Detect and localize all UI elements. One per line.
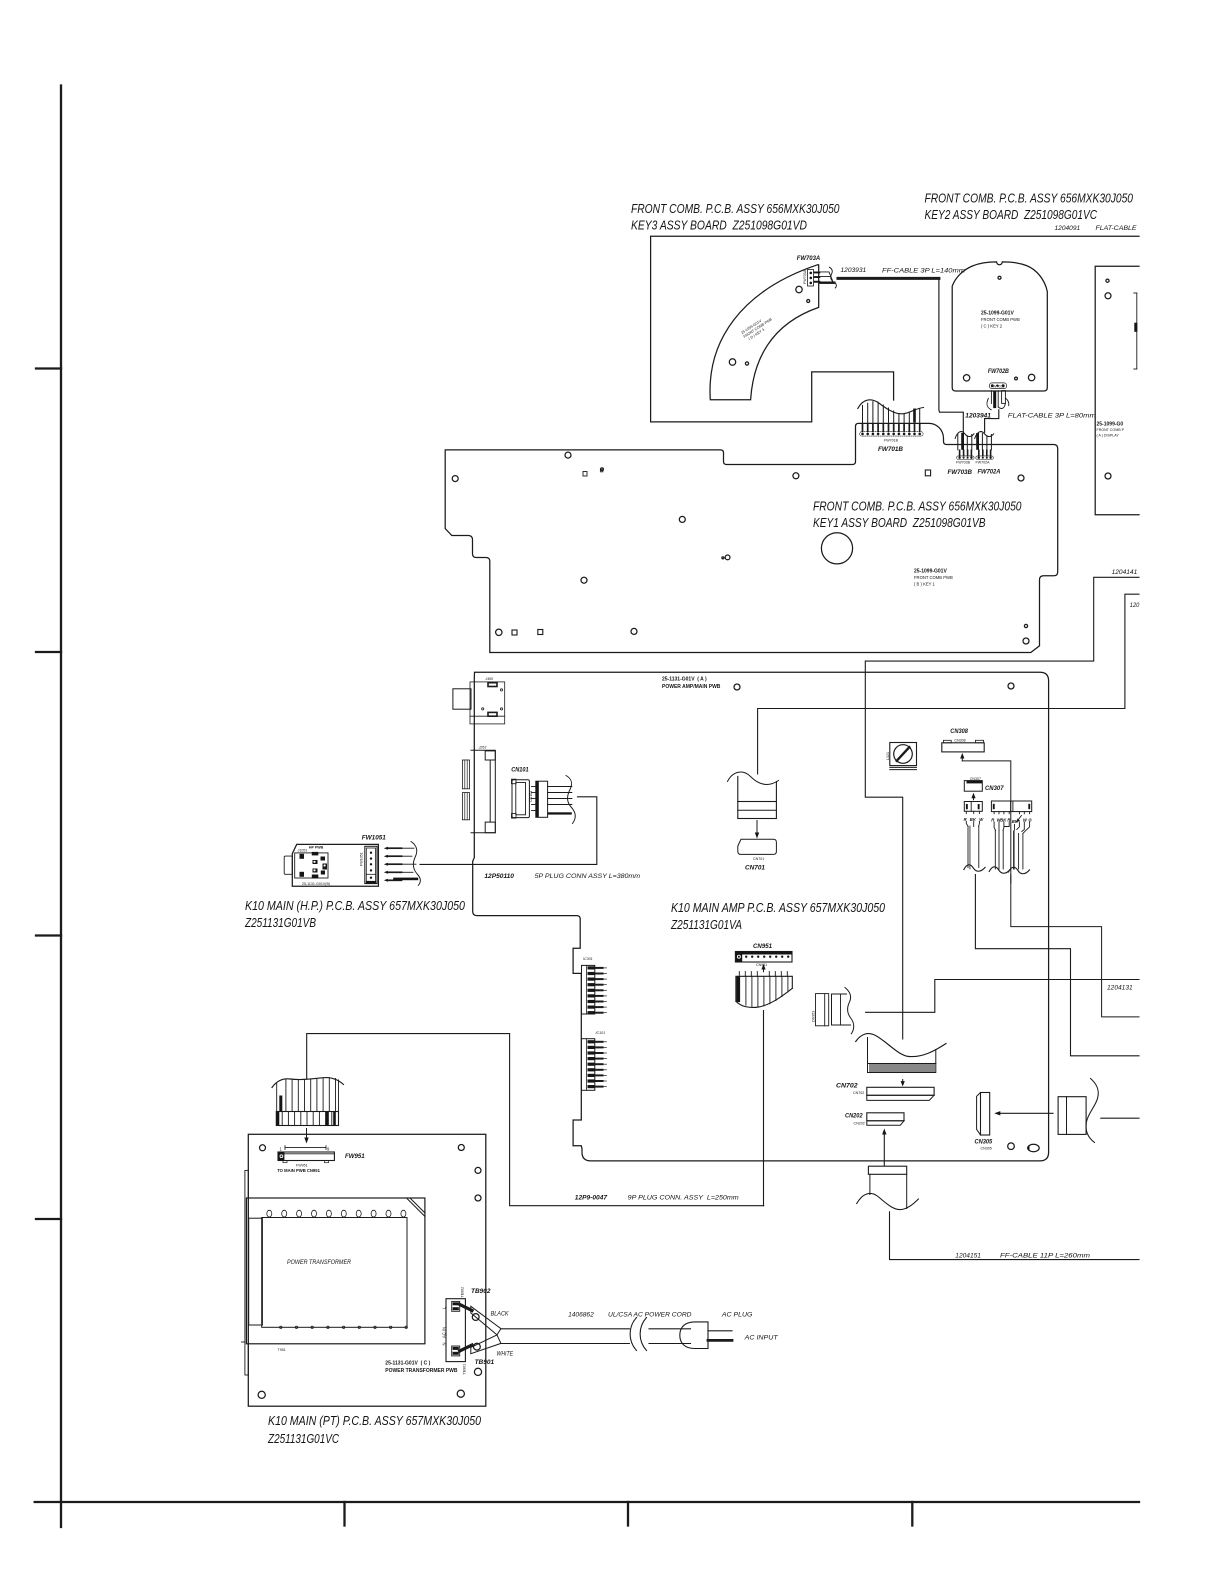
svg-text:( C ) KEY 2: ( C ) KEY 2 [981, 324, 1003, 329]
wire bundle group 1 [964, 822, 985, 872]
hole on KEY1 [793, 473, 799, 479]
connector IC101 edge comb [582, 1031, 607, 1090]
connector DN953 [812, 994, 829, 1026]
connector CN305 [975, 1093, 993, 1151]
connector CN308 [942, 739, 984, 752]
svg-text:FLAT-CABLE: FLAT-CABLE [1096, 225, 1138, 232]
svg-text:Z251131G01VA: Z251131G01VA [670, 917, 742, 932]
connector CN951 mating ribbon comb [736, 972, 792, 1008]
svg-text:Z251131G01VB: Z251131G01VB [244, 915, 316, 930]
svg-text:FRONT COMB. P.C.B. ASSY 656MXK: FRONT COMB. P.C.B. ASSY 656MXK30J050 [631, 201, 840, 216]
svg-text:FF-CABLE 11P L=260mm: FF-CABLE 11P L=260mm [1000, 1253, 1091, 1260]
connector speaker plug group 2 [991, 801, 1031, 814]
wire black lead from TB902 [460, 1305, 472, 1311]
svg-text:TB901: TB901 [475, 1359, 495, 1366]
wire flat-cable 3P 80mm route to FW702A [985, 410, 999, 433]
svg-text:CN305: CN305 [975, 1139, 993, 1146]
connector IC301 edge comb [582, 957, 607, 1014]
arrow BK marker [1016, 816, 1022, 823]
connector CN202 [845, 1113, 904, 1126]
connector FW703B ribbon bars [958, 433, 972, 450]
board K10 MAIN (H.P.) PWB [284, 844, 378, 886]
wire 9P plug conn assy loop [307, 1034, 764, 1206]
page frame left border line [60, 86, 62, 1528]
svg-text:FW951: FW951 [345, 1153, 365, 1160]
wire 1204131 route C [866, 980, 1139, 1013]
svg-text:K10 MAIN (PT) P.C.B. ASSY 657M: K10 MAIN (PT) P.C.B. ASSY 657MXK30J050 [268, 1413, 482, 1428]
page frame left tick 4 [36, 1218, 61, 1220]
svg-text:AC PLUG: AC PLUG [721, 1312, 753, 1319]
svg-text:FW951: FW951 [296, 1164, 308, 1168]
svg-text:G: G [1028, 818, 1032, 823]
hole on KEY3 lower small [745, 362, 748, 365]
svg-text:IC301: IC301 [583, 957, 593, 961]
svg-text:UL/CSA AC POWER CORD: UL/CSA AC POWER CORD [608, 1312, 692, 1319]
svg-text:IC101: IC101 [596, 1031, 606, 1035]
hole on KEY2 bottom middle small [1015, 377, 1018, 380]
svg-text:J450: J450 [484, 677, 493, 681]
svg-text:POWER TRANSFORMER PWB: POWER TRANSFORMER PWB [385, 1368, 458, 1374]
svg-text:Z251131G01VC: Z251131G01VC [267, 1431, 339, 1446]
wire bundle group 3 [1008, 822, 1029, 883]
AC power cord [501, 1318, 691, 1351]
svg-text:1204141: 1204141 [1112, 569, 1138, 576]
page frame left tick 2 [36, 651, 61, 653]
hole on main amp right [1008, 683, 1014, 689]
hole on KEY1 small [601, 468, 604, 471]
svg-text:W: W [1023, 818, 1028, 823]
connector FW1051 mating 5P ribbon [384, 842, 421, 886]
svg-text:12P50110: 12P50110 [484, 873, 514, 880]
hole under harness lower [474, 1343, 481, 1350]
connector FW951 ribbon comb [276, 1112, 338, 1126]
svg-text:TB902: TB902 [461, 1287, 465, 1298]
arrow to CN308 [960, 753, 964, 761]
svg-text:FW703A: FW703A [803, 269, 807, 284]
svg-text:25-1131-G01V ( C ): 25-1131-G01V ( C ) [385, 1361, 430, 1367]
svg-text:FRONT COMB P: FRONT COMB P [1097, 428, 1125, 432]
board KEY2 tombstone front comb PWB [952, 262, 1047, 391]
svg-text:1204131: 1204131 [1107, 985, 1133, 992]
connector CN101 [512, 779, 534, 818]
connector J450 [453, 677, 505, 724]
svg-text:AC IN: AC IN [442, 1327, 447, 1338]
svg-text:FW702A: FW702A [978, 469, 1001, 476]
svg-text:1: 1 [280, 1147, 283, 1152]
connector CN951 [735, 952, 792, 968]
connector FW703B pins [960, 450, 972, 456]
connector FW702A ribbon wave [975, 432, 994, 439]
svg-text:CN101: CN101 [511, 767, 529, 774]
svg-text:CN701: CN701 [753, 857, 764, 861]
connector CN951 cable far end [832, 988, 854, 1034]
svg-text:FW702B: FW702B [988, 368, 1009, 375]
svg-text:FW702A: FW702A [976, 461, 991, 465]
svg-text:N: N [442, 1342, 447, 1345]
page frame bottom border line [35, 1501, 1139, 1503]
page frame left tick 3 [36, 934, 61, 936]
arrow to CN951 [761, 964, 765, 972]
connector FW951 ribbon cable wave [272, 1078, 344, 1088]
wire FF-cable 3P thick run [838, 277, 939, 280]
power transformer T951 [246, 1198, 425, 1352]
svg-text:9: 9 [327, 1147, 330, 1152]
svg-text:CN702: CN702 [836, 1083, 858, 1090]
PT board left edge bracket [242, 1170, 249, 1375]
svg-text:FRONT COMB. P.C.B. ASSY 656MXK: FRONT COMB. P.C.B. ASSY 656MXK30J050 [813, 499, 1022, 514]
hole on main amp left [734, 684, 740, 690]
svg-text:1203931: 1203931 [841, 267, 867, 274]
svg-text:FW701B: FW701B [884, 439, 899, 443]
svg-text:TB902: TB902 [471, 1288, 491, 1295]
svg-text:FW703B: FW703B [956, 461, 971, 465]
connector CN307 [964, 777, 1003, 792]
svg-text:CN951: CN951 [756, 963, 767, 967]
svg-text:FW1051: FW1051 [360, 852, 364, 866]
svg-text:CN202: CN202 [854, 1122, 865, 1126]
svg-text:9P PLUG CONN. ASSY L=250mm: 9P PLUG CONN. ASSY L=250mm [628, 1195, 740, 1202]
svg-text:FLAT-CABLE 3P L=80mm: FLAT-CABLE 3P L=80mm [1008, 413, 1097, 420]
connector FW702A ribbon bars [976, 433, 991, 450]
svg-text:FW703B: FW703B [948, 469, 973, 476]
svg-text:FRONT COMB PWB: FRONT COMB PWB [981, 317, 1020, 322]
svg-text:CN305: CN305 [981, 1147, 992, 1151]
holes on PT board [260, 1145, 266, 1151]
svg-text:( A ) DISPLAY: ( A ) DISPLAY [1097, 434, 1120, 438]
hole on KEY3 lower [729, 359, 735, 365]
wire 1204141 ff-cable route A [865, 577, 1139, 1039]
connector FW701B pins [863, 424, 920, 431]
arrow from FW951 ribbon [304, 1129, 308, 1144]
board K10 MAIN AMP power amp/main PWB outline [473, 672, 1049, 1161]
svg-text:J1051: J1051 [298, 849, 308, 853]
hole on KEY3 [796, 286, 802, 292]
svg-text:1406862: 1406862 [568, 1312, 594, 1319]
connector CN701 [738, 839, 777, 871]
connector FW703B ribbon wave [955, 432, 974, 439]
connector CN702 [836, 1083, 934, 1101]
square holes on KEY1 bottom [512, 630, 517, 635]
connector 5P plug on CN101 [532, 776, 576, 824]
connector FW703A cable end [819, 267, 836, 288]
connector FW702A pins [979, 450, 991, 456]
wire white lead from TB901 [460, 1345, 472, 1351]
hole on KEY1 [565, 452, 571, 458]
connector FW702B mating cable plug [987, 391, 1009, 410]
connector CN701 mating plug with wave [728, 772, 779, 818]
wire harness lower band to cord [471, 1335, 501, 1354]
svg-text:K10 MAIN (H.P.) P.C.B. ASSY 65: K10 MAIN (H.P.) P.C.B. ASSY 657MXK30J050 [245, 898, 466, 913]
connector FW701B ribbon cable wave [858, 400, 924, 414]
connector FW703B dot row [957, 456, 975, 460]
wire CN951 9P cable down [763, 1011, 765, 1206]
svg-text:25-1131-G01V ( A ): 25-1131-G01V ( A ) [662, 677, 707, 683]
terminal block TB902/TB901 [442, 1287, 467, 1375]
svg-text:FF-CABLE 3P L=140mm: FF-CABLE 3P L=140mm [882, 268, 966, 275]
svg-text:T951: T951 [278, 1348, 286, 1352]
svg-text:TB901: TB901 [463, 1364, 467, 1375]
svg-text:CN308: CN308 [954, 739, 965, 743]
connector speaker plug group 1 [964, 802, 982, 814]
AC plug prongs [708, 1330, 732, 1332]
svg-text:( B ) KEY 1: ( B ) KEY 1 [914, 582, 936, 587]
svg-text:FRONT COMB PWB: FRONT COMB PWB [914, 575, 953, 580]
svg-text:CN951: CN951 [753, 943, 772, 950]
hole on KEY2 bottom right [1028, 374, 1034, 380]
connector FW951 on PT board [277, 1146, 365, 1173]
oval hole on main amp bottom [1028, 1144, 1039, 1151]
arrow to CN202 from 11P cable [882, 1129, 886, 1166]
hole on KEY1 [452, 476, 458, 482]
board K10 MAIN (PT) power transformer PWB outline [248, 1134, 485, 1406]
wire FW701B flat cable to display board [651, 236, 1139, 422]
holes on KEY1 bottom right [1024, 624, 1027, 627]
svg-text:FRONT COMB. P.C.B. ASSY 656MXK: FRONT COMB. P.C.B. ASSY 656MXK30J050 [925, 191, 1134, 206]
page frame bottom tick 2 [627, 1502, 629, 1526]
connector FW951 ribbon body [277, 1078, 339, 1112]
connector J263 [462, 746, 495, 833]
svg-text:W: W [979, 817, 984, 822]
arrow to CN702 [901, 1080, 905, 1087]
board KEY1 front comb PWB outline [445, 423, 1057, 652]
svg-text:POWER TRANSFORMER: POWER TRANSFORMER [287, 1259, 351, 1266]
svg-text:25-1131-G01V(B): 25-1131-G01V(B) [302, 882, 330, 886]
wire from 11P ribbon to edge [1101, 1117, 1139, 1119]
connector FW701B ribbon comb [863, 402, 920, 423]
svg-text:25-1099-G0: 25-1099-G0 [1097, 422, 1124, 428]
connector CN702 ribbon cable wave [856, 1034, 946, 1057]
hole on KEY3 small [807, 300, 810, 303]
connector FW702A dot row [976, 456, 994, 460]
board KEY3 banana-shaped front comb PWB [710, 265, 819, 400]
hole on KEY2 bottom left [963, 375, 969, 381]
page frame left tick 1 [36, 367, 61, 369]
AC plug body [680, 1322, 708, 1349]
wire 5P plug conn assy to FW1051 [420, 797, 597, 865]
svg-text:WHITE: WHITE [497, 1351, 514, 1358]
hole under harness upper [472, 1314, 479, 1321]
svg-text:AC INPUT: AC INPUT [744, 1335, 779, 1342]
page frame bottom tick 3 [911, 1502, 913, 1526]
svg-text:FW1051: FW1051 [362, 835, 386, 842]
svg-text:FW703A: FW703A [797, 255, 821, 262]
svg-text:25-1099-G01V: 25-1099-G01V [914, 569, 947, 575]
wire from bundle 1 down-right to edge [975, 875, 1139, 1056]
svg-text:5P PLUG CONN ASSY L=380mm: 5P PLUG CONN ASSY L=380mm [535, 873, 641, 880]
arrow CN701 mating [755, 821, 759, 839]
svg-text:K10 MAIN AMP P.C.B. ASSY 657MX: K10 MAIN AMP P.C.B. ASSY 657MXK30J050 [671, 900, 886, 915]
big hole on KEY1 [821, 533, 852, 564]
svg-text:J263: J263 [478, 746, 487, 750]
arrow to CN307 [971, 793, 975, 800]
svg-text:1203941: 1203941 [965, 413, 991, 420]
wire CN308 to ff-cable route [962, 761, 1139, 1017]
connector CN702 ribbon body [868, 1038, 936, 1073]
svg-text:TO MAIN PWB CN951: TO MAIN PWB CN951 [277, 1168, 320, 1173]
svg-text:FW701B: FW701B [878, 446, 903, 453]
svg-text:25-1099-G01V: 25-1099-G01V [981, 311, 1014, 317]
square hole on KEY1 [583, 472, 587, 477]
small dot pair on KEY1 [722, 557, 724, 559]
svg-text:CN701: CN701 [745, 865, 765, 872]
svg-text:1204151: 1204151 [955, 1253, 981, 1260]
svg-text:KEY3 ASSY BOARD Z251098G01VD: KEY3 ASSY BOARD Z251098G01VD [631, 218, 807, 233]
wire harness upper band to cord [471, 1306, 501, 1335]
part number text on KEY3 (rotated) [740, 313, 775, 342]
connector 11P ribbon at right [1058, 1079, 1098, 1143]
svg-text:CN702: CN702 [853, 1091, 864, 1095]
svg-text:KEY1 ASSY BOARD Z251098G01VB: KEY1 ASSY BOARD Z251098G01VB [813, 515, 986, 530]
svg-text:KEY2 ASSY BOARD Z251098G01VC: KEY2 ASSY BOARD Z251098G01VC [925, 207, 1098, 222]
connector FW702B pin row [990, 383, 1007, 389]
svg-text:12P9-0047: 12P9-0047 [575, 1195, 608, 1202]
wire FF-cable 3P route to FW703B [939, 278, 963, 432]
holes on KEY1 bottom [496, 629, 502, 635]
svg-text:HP PWB: HP PWB [309, 846, 324, 850]
square hole on KEY1 tiny [600, 469, 603, 472]
svg-text:1204091: 1204091 [1055, 225, 1081, 232]
pin labels R W BK R BK W G [991, 818, 1032, 825]
svg-text:CN308: CN308 [950, 728, 968, 735]
component L321 fuse/coil [886, 743, 917, 770]
hole on KEY1 [581, 577, 587, 583]
svg-text:CN202: CN202 [845, 1113, 863, 1120]
arrow to CN305 [994, 1111, 1053, 1115]
svg-text:BLACK: BLACK [491, 1311, 509, 1318]
svg-text:CN307: CN307 [985, 785, 1004, 792]
wire bundle group 2 [989, 822, 1010, 873]
hole on KEY2 top [998, 276, 1001, 279]
svg-text:120: 120 [1130, 602, 1140, 609]
hole on KEY1 right [1018, 475, 1024, 481]
connector FW701B socket dot row [860, 432, 924, 436]
hole on main amp bottom [1008, 1143, 1015, 1150]
wire route B to CN701 [758, 594, 1139, 774]
hole on KEY1 [679, 516, 685, 522]
connector FW703A pin strip [803, 269, 820, 286]
page frame bottom tick 1 [343, 1502, 345, 1526]
board DISPLAY front comb PWB (partial at right) [1095, 266, 1139, 515]
svg-text:POWER AMP/MAIN PWB: POWER AMP/MAIN PWB [662, 684, 721, 690]
svg-text:DN953: DN953 [812, 1011, 816, 1022]
connector FW1051 [360, 846, 378, 883]
square hole on KEY1 right [925, 470, 930, 476]
svg-text:L321: L321 [886, 752, 890, 760]
wire 1204151 ff-cable 11P [890, 1212, 1140, 1260]
connector 11P cable below board [857, 1166, 919, 1209]
